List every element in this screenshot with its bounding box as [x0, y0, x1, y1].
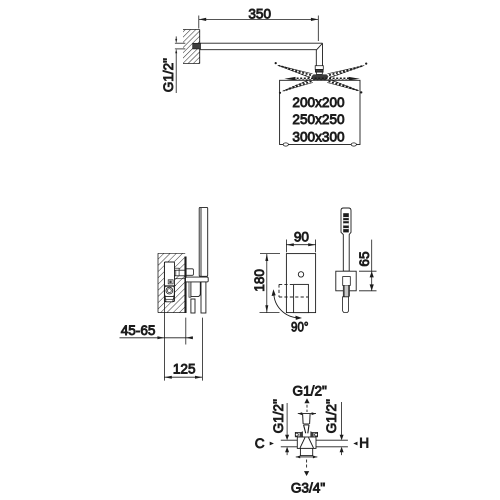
svg-text:C: C [255, 436, 265, 451]
svg-text:90°: 90° [291, 319, 309, 334]
svg-text:350: 350 [248, 6, 271, 21]
svg-text:200x200: 200x200 [292, 95, 345, 110]
svg-text:180: 180 [252, 269, 267, 292]
svg-text:H: H [359, 436, 369, 451]
svg-text:G1/2": G1/2" [293, 383, 327, 398]
svg-text:45-65: 45-65 [121, 323, 156, 338]
svg-text:G1/2": G1/2" [271, 399, 286, 433]
svg-text:65: 65 [357, 251, 372, 266]
svg-text:250x250: 250x250 [292, 112, 345, 127]
svg-text:G1/2": G1/2" [161, 58, 176, 92]
svg-text:G1/2": G1/2" [324, 399, 339, 433]
svg-text:G3/4": G3/4" [291, 481, 325, 496]
svg-text:90: 90 [294, 230, 310, 245]
svg-text:125: 125 [173, 362, 196, 377]
svg-text:300x300: 300x300 [292, 129, 345, 144]
